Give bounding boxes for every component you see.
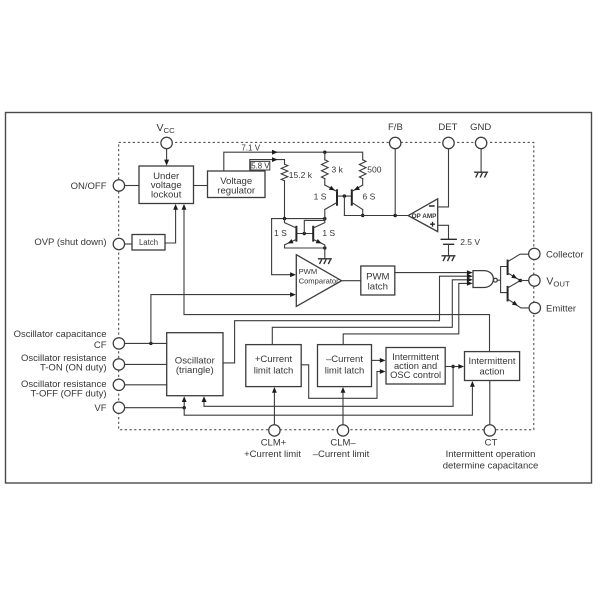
pin T-OFF Oscillator resistance [21, 379, 125, 400]
svg-text:determine capacitance: determine capacitance [443, 460, 539, 471]
svg-text:regulator: regulator [217, 185, 256, 196]
wire CLM+ pin up into +CLL with arrow [273, 392, 275, 424]
ground (mirror rail) [318, 259, 332, 264]
pin VOUT [529, 275, 570, 289]
wire op-amp output row [344, 215, 408, 217]
svg-text:Oscillator capacitance: Oscillator capacitance [14, 329, 107, 340]
svg-text:Intermittent operation: Intermittent operation [446, 449, 536, 460]
svg-text:T-ON (ON duty): T-ON (ON duty) [40, 362, 107, 373]
svg-text:VF: VF [94, 403, 106, 414]
svg-text:3 k: 3 k [332, 165, 344, 175]
pin T-ON Oscillator resistance [21, 353, 125, 374]
pin Collector [529, 248, 584, 260]
wire VCC pin to U1 with arrow [166, 149, 168, 160]
svg-text:(triangle): (triangle) [176, 365, 214, 376]
outer frame of figure [6, 113, 592, 484]
svg-text:T-OFF (OFF duty): T-OFF (OFF duty) [31, 388, 107, 399]
pin Emitter [529, 302, 576, 314]
wire +Current limit latch to NAND input 3 [272, 280, 467, 345]
nand gate U12 [473, 271, 497, 288]
transistor Q4 1 S (npn, mirror right, diode connected) [313, 219, 335, 248]
wire op-amp + input to 2.5V reference [438, 225, 449, 239]
svg-text:OSC control: OSC control [390, 369, 441, 380]
svg-text:DET: DET [438, 122, 457, 133]
svg-text:+Current limit: +Current limit [244, 449, 301, 460]
transistor Q6 (output npn lower) [508, 281, 529, 308]
pin ON/OFF [71, 180, 125, 192]
op-amp U11 [408, 199, 438, 232]
wire F/B pin down to op-amp row [394, 149, 396, 216]
svg-text:CT: CT [485, 437, 498, 448]
svg-text:latch: latch [368, 282, 388, 293]
wire long feedback net: up into U1, down left side, across to U10 top [184, 210, 490, 352]
ground (GND pin) [474, 172, 488, 177]
resistor R2 3 k [322, 160, 344, 179]
wire +CLL right output to U9 lower input with arrow [301, 365, 380, 399]
block U3 Latch [132, 235, 165, 251]
block U6 Oscillator (triangle) [167, 333, 223, 396]
wire 7.1V rail from U2 top to resistors R2 R3 [224, 152, 363, 171]
svg-text:Collector: Collector [546, 249, 584, 260]
wire nand output to driver bases [497, 267, 507, 293]
resistor R3 500 [359, 160, 381, 179]
wire node row A-B and to comparator branch corner [272, 218, 325, 220]
svg-text:5.8 V: 5.8 V [251, 161, 270, 170]
transistor Q1 1 S (pnp, diff pair left) [314, 185, 337, 210]
node VOUT junction [519, 279, 523, 283]
svg-text:Comparator: Comparator [299, 276, 340, 285]
node B [323, 217, 326, 220]
block U5 PWM latch [361, 266, 395, 295]
svg-text:limit latch: limit latch [254, 365, 294, 376]
svg-text:GND: GND [470, 122, 491, 133]
svg-text:Emitter: Emitter [546, 303, 576, 314]
svg-text:VOUT: VOUT [546, 276, 570, 289]
node F/B tap [394, 214, 397, 217]
wire U1 to U2 [194, 185, 208, 187]
svg-text:CF: CF [94, 340, 107, 351]
svg-text:–Current limit: –Current limit [313, 449, 370, 460]
block U1 Under voltage lockout [139, 166, 194, 204]
svg-text:VCC: VCC [157, 122, 176, 135]
block U7 +Current limit latch [246, 345, 301, 387]
wire diff-pair bases junction down to op-amp row [337, 195, 352, 197]
wire U9 output to node and into U10 with arrow [445, 366, 459, 368]
pin GND [470, 122, 491, 149]
svg-text:ON/OFF: ON/OFF [71, 181, 107, 192]
wire VOUT node to pin [520, 280, 528, 282]
IC boundary (dashed) [119, 142, 534, 429]
wire PWM latch to NAND input 1 [395, 272, 467, 274]
wire PWM comparator output to PWM latch [342, 280, 361, 282]
pin VCC [157, 122, 176, 149]
block U10 Intermittent action [465, 352, 520, 381]
transistor Q2 6 S (pnp, diff pair right) [352, 185, 376, 210]
wire Latch output up into U1 with arrow [165, 210, 176, 244]
svg-text:6 S: 6 S [363, 192, 376, 202]
wire T-OFF pin to oscillator [125, 384, 167, 386]
wire mirror base loop [296, 233, 313, 235]
wire OVP pin to Latch [125, 243, 132, 245]
resistor R1 15.2 k [281, 164, 313, 181]
wire GND pin to ground [480, 149, 482, 173]
pin F/B [388, 122, 403, 149]
wire oscillator output to NAND input 2 [223, 276, 467, 363]
node A [283, 217, 286, 220]
svg-text:500: 500 [367, 165, 381, 175]
svg-text:action: action [479, 365, 504, 376]
comparator U4 PWM Comparator [296, 255, 341, 307]
wire mirror emitter rail to ground [285, 247, 325, 249]
svg-text:limit latch: limit latch [325, 365, 365, 376]
svg-text:lockout: lockout [151, 190, 182, 201]
svg-text:7.1 V: 7.1 V [241, 143, 260, 152]
pin CLM- [313, 425, 370, 461]
wire 5.8V from U2 top to R1 15.2k [250, 160, 285, 171]
svg-text:Latch: Latch [139, 238, 158, 247]
capacitor C1 2.5 V [441, 237, 481, 256]
node: 7.1V tap to R2 3k [323, 151, 326, 154]
wire Q1 collector down to node B [324, 210, 326, 219]
wire T-ON pin to oscillator [125, 363, 167, 365]
pin CLM+ [244, 425, 301, 461]
svg-text:1 S: 1 S [314, 192, 327, 202]
svg-text:CLM–: CLM– [330, 437, 356, 448]
wire ON/OFF pin to U1 [125, 185, 139, 187]
wire oscillator bottom second input from intermittent-action node [204, 367, 453, 407]
svg-text:OP AMP: OP AMP [412, 213, 438, 220]
pin VF [94, 402, 124, 414]
wire CF node up to PWM comparator lower input with arrow [151, 295, 290, 344]
svg-text:F/B: F/B [388, 122, 403, 133]
block U2 Voltage regulator [208, 171, 266, 198]
transistor Q5 (output npn upper) [508, 254, 529, 280]
pin CT [443, 425, 539, 472]
wire Q2 collector down to op-amp row [362, 210, 364, 216]
svg-text:2.5 V: 2.5 V [460, 237, 480, 247]
block U8 -Current limit latch [318, 345, 372, 387]
svg-text:PWM: PWM [299, 267, 318, 276]
5.8 V boxed label [251, 161, 270, 170]
svg-text:15.2 k: 15.2 k [289, 170, 313, 180]
pin CF Oscillator capacitance [14, 329, 125, 351]
wire CF pin to oscillator [125, 342, 167, 344]
svg-text:OVP (shut down): OVP (shut down) [34, 237, 106, 248]
pin DET [438, 122, 457, 149]
svg-text:1 S: 1 S [322, 228, 335, 238]
wire VF pin net: into oscillator bottom and across to U10 bottom [125, 402, 185, 408]
svg-text:+Current: +Current [255, 354, 293, 365]
svg-text:Intermittent: Intermittent [469, 355, 516, 366]
wire -CLL right output to U9 upper input with arrow [372, 359, 381, 361]
pin OVP (shut down) [34, 237, 124, 250]
wire R2 bottom to Q1 emitter [324, 179, 326, 185]
svg-text:1 S: 1 S [274, 228, 287, 238]
svg-text:CLM+: CLM+ [261, 437, 287, 448]
wire CLM- pin up into -CLL with arrow [342, 392, 344, 424]
transistor Q3 1 S (npn, mirror left) [274, 219, 296, 248]
svg-text:–Current: –Current [326, 354, 363, 365]
wire CT pin up into U10 bottom [489, 381, 491, 425]
wire R1 bottom to node A [284, 181, 286, 219]
node before U10 input [451, 365, 454, 368]
ground (2.5V reference) [442, 256, 456, 261]
wire DET pin down to op-amp inverting input [438, 149, 449, 207]
wire R3 bottom to Q2 emitter [362, 179, 364, 185]
wire -Current limit latch to NAND input 4 [343, 283, 467, 344]
block U9 Intermittent action and OSC control [386, 348, 445, 385]
wire node row down to PWM comparator upper input with arrow [272, 219, 291, 275]
